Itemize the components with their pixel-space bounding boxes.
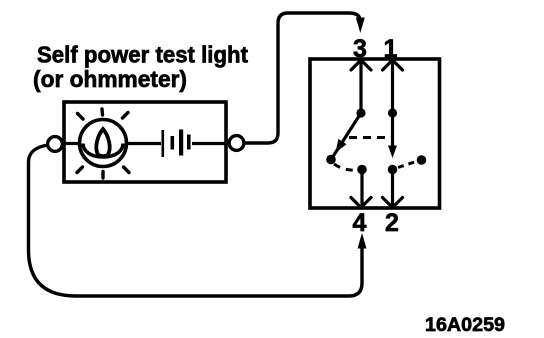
svg-text:4: 4	[353, 209, 367, 237]
svg-text:2: 2	[385, 209, 399, 237]
svg-text:1: 1	[384, 35, 398, 63]
svg-text:(or ohmmeter): (or ohmmeter)	[33, 66, 187, 92]
svg-text:3: 3	[353, 35, 367, 63]
svg-text:16A0259: 16A0259	[425, 314, 505, 336]
svg-text:Self power test light: Self power test light	[37, 42, 248, 68]
